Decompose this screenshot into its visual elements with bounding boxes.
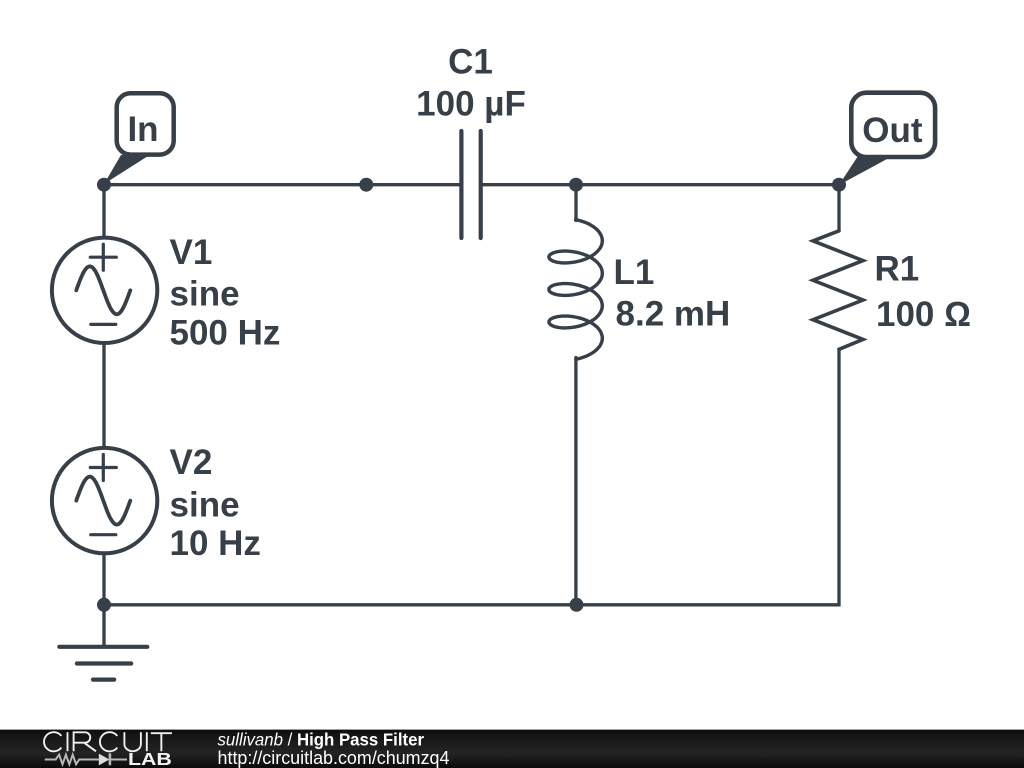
svg-text:100 µF: 100 µF: [416, 84, 526, 123]
svg-text:8.2 mH: 8.2 mH: [616, 295, 731, 334]
svg-text:LAB: LAB: [128, 749, 172, 768]
svg-text:V1: V1: [170, 233, 213, 272]
svg-text:Out: Out: [862, 111, 923, 150]
svg-text:sine: sine: [170, 275, 240, 314]
svg-text:V2: V2: [170, 443, 213, 482]
svg-text:C1: C1: [448, 43, 493, 82]
svg-text:sullivanb / High Pass Filter: sullivanb / High Pass Filter: [218, 730, 425, 750]
svg-text:100 Ω: 100 Ω: [876, 295, 971, 334]
svg-text:R1: R1: [875, 250, 920, 289]
svg-text:10 Hz: 10 Hz: [170, 524, 261, 563]
svg-text:In: In: [127, 110, 158, 149]
svg-text:sine: sine: [170, 486, 240, 525]
svg-text:http://circuitlab.com/chumzq4: http://circuitlab.com/chumzq4: [218, 748, 450, 768]
svg-text:500 Hz: 500 Hz: [170, 314, 281, 353]
svg-text:L1: L1: [614, 253, 655, 292]
